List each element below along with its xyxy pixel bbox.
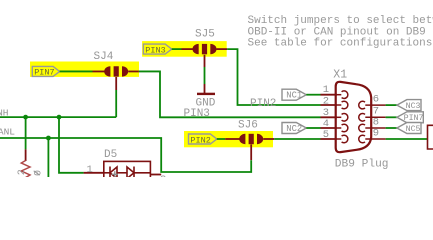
component cut at right edge: [428, 125, 433, 149]
wire pin6 to NC3: [386, 104, 397, 106]
pin stub X1-4: [337, 124, 348, 132]
junction CANL branch: [46, 136, 51, 141]
pin stub X1-1: [337, 91, 348, 99]
pin lead SJ4 right: [128, 70, 139, 72]
highlight SJ4: [30, 62, 139, 77]
svg-text:PIN2: PIN2: [250, 98, 276, 110]
wire net PIN3 from SJ4 right to DB9 pin3: [139, 71, 321, 117]
wire pin8 to NC5: [386, 127, 397, 129]
pin lead SJ6 center: [250, 144, 252, 160]
svg-text:2: 2: [160, 174, 166, 177]
pin lead SJ4 left: [93, 70, 105, 72]
pin lead SJ6 left: [225, 138, 240, 140]
wire CANL: [0, 138, 251, 172]
flag PIN7 right: [397, 112, 424, 123]
svg-text:5: 5: [323, 129, 329, 141]
wire pin9 to right edge: [386, 138, 428, 140]
pin marker inside D5: [112, 171, 118, 177]
pin stub DB9 pin1: [321, 94, 338, 96]
wire PIN7 flag to SJ4: [60, 70, 93, 72]
note text: [248, 15, 433, 49]
svg-text:See table for configurations: See table for configurations: [248, 37, 433, 49]
flag NC3: [397, 100, 421, 111]
wire NC2 to pin4: [306, 127, 320, 129]
svg-text:DB9 Plug: DB9 Plug: [335, 159, 389, 171]
pin lead SJ4 center: [115, 77, 117, 90]
highlight SJ5: [142, 41, 227, 57]
wire CANH to R2: [25, 117, 27, 149]
svg-text:SJ5: SJ5: [195, 29, 215, 41]
svg-text:NC5: NC5: [406, 125, 421, 134]
svg-text:PIN2: PIN2: [190, 135, 210, 145]
svg-text:NC2: NC2: [286, 124, 302, 134]
pin lead SJ5 right: [217, 48, 228, 50]
svg-text:CANL: CANL: [0, 126, 15, 137]
pin stub X1-2: [337, 101, 348, 109]
pin lead GND: [204, 84, 206, 93]
text R2 value (rotated): [34, 170, 45, 176]
connector X1 DB9 outline: [336, 82, 372, 152]
pin stub DB9 pin3: [321, 116, 338, 118]
svg-text:NC1: NC1: [286, 91, 302, 101]
svg-text:NC3: NC3: [406, 102, 421, 111]
wire SJ4 center down to CANH: [115, 90, 117, 117]
solder jumper SJ5: [193, 44, 217, 54]
pin stub X1-9: [359, 135, 386, 143]
pin stub X1-6: [359, 101, 386, 109]
flag PIN3: [143, 44, 171, 55]
pin lead SJ6 right: [263, 138, 274, 140]
resistor R2: [21, 161, 30, 178]
pin stub X1-7: [359, 114, 386, 122]
solder jumper SJ6: [239, 134, 263, 144]
pin stub X1-5: [337, 135, 348, 143]
pin lead D5 pin2: [150, 174, 161, 176]
pin stub X1-3: [337, 114, 348, 122]
wire SJ5 center to GND: [204, 67, 206, 84]
svg-text:9: 9: [373, 128, 379, 140]
wire pin7 to PIN7: [386, 116, 397, 118]
wire SJ6 right to DB9 pin5: [274, 138, 320, 140]
junction CANH-R2: [23, 115, 28, 120]
svg-text:PIN7: PIN7: [404, 114, 424, 123]
pin lead SJ5 left: [182, 48, 194, 50]
flag NC2: [282, 123, 306, 134]
pin lead SJ5 center: [204, 55, 206, 67]
wire PIN2 flag to SJ6: [217, 138, 225, 140]
svg-text:D5: D5: [104, 149, 117, 161]
solder jumper SJ4: [104, 66, 128, 76]
flag NC1: [282, 89, 306, 100]
svg-text:GND: GND: [196, 97, 216, 109]
svg-text:Switch jumpers to select betwe: Switch jumpers to select betwe: [248, 15, 433, 27]
diode array D5: [104, 161, 151, 183]
flag NC5: [397, 123, 421, 134]
pin stub DB9 pin2: [321, 104, 338, 106]
ground symbol: [197, 93, 215, 95]
highlight SJ6: [184, 131, 273, 147]
svg-text:SJ6: SJ6: [238, 119, 258, 131]
pin stub X1-8: [359, 124, 386, 132]
svg-text:2: 2: [17, 169, 28, 175]
pin stub DB9 pin5: [321, 138, 338, 140]
svg-text:PIN3: PIN3: [184, 108, 210, 120]
svg-text:SJ4: SJ4: [94, 51, 114, 63]
wire net PIN2 from SJ5 right to DB9 pin2: [227, 49, 320, 105]
svg-text:6: 6: [373, 94, 379, 106]
svg-text:PIN7: PIN7: [34, 68, 54, 78]
wire CANH: [0, 116, 116, 118]
svg-text:X1: X1: [333, 68, 347, 81]
svg-text:1: 1: [87, 164, 93, 176]
wire PIN3 flag to SJ5: [172, 48, 182, 50]
pin lead R2 top: [25, 149, 27, 161]
wire NC1 to pin1: [306, 94, 320, 96]
wire CANH to D5: [59, 117, 84, 173]
pin lead D5 pin1: [84, 172, 104, 174]
pin stub DB9 pin4: [321, 127, 338, 129]
flag PIN7: [32, 66, 59, 77]
junction CANH-D5: [57, 115, 62, 120]
svg-text:PIN3: PIN3: [145, 45, 165, 55]
svg-text:2: 2: [323, 96, 329, 108]
flag PIN2: [189, 134, 217, 145]
wire CANL branch down: [47, 138, 49, 177]
svg-text:CANH: CANH: [0, 107, 9, 118]
